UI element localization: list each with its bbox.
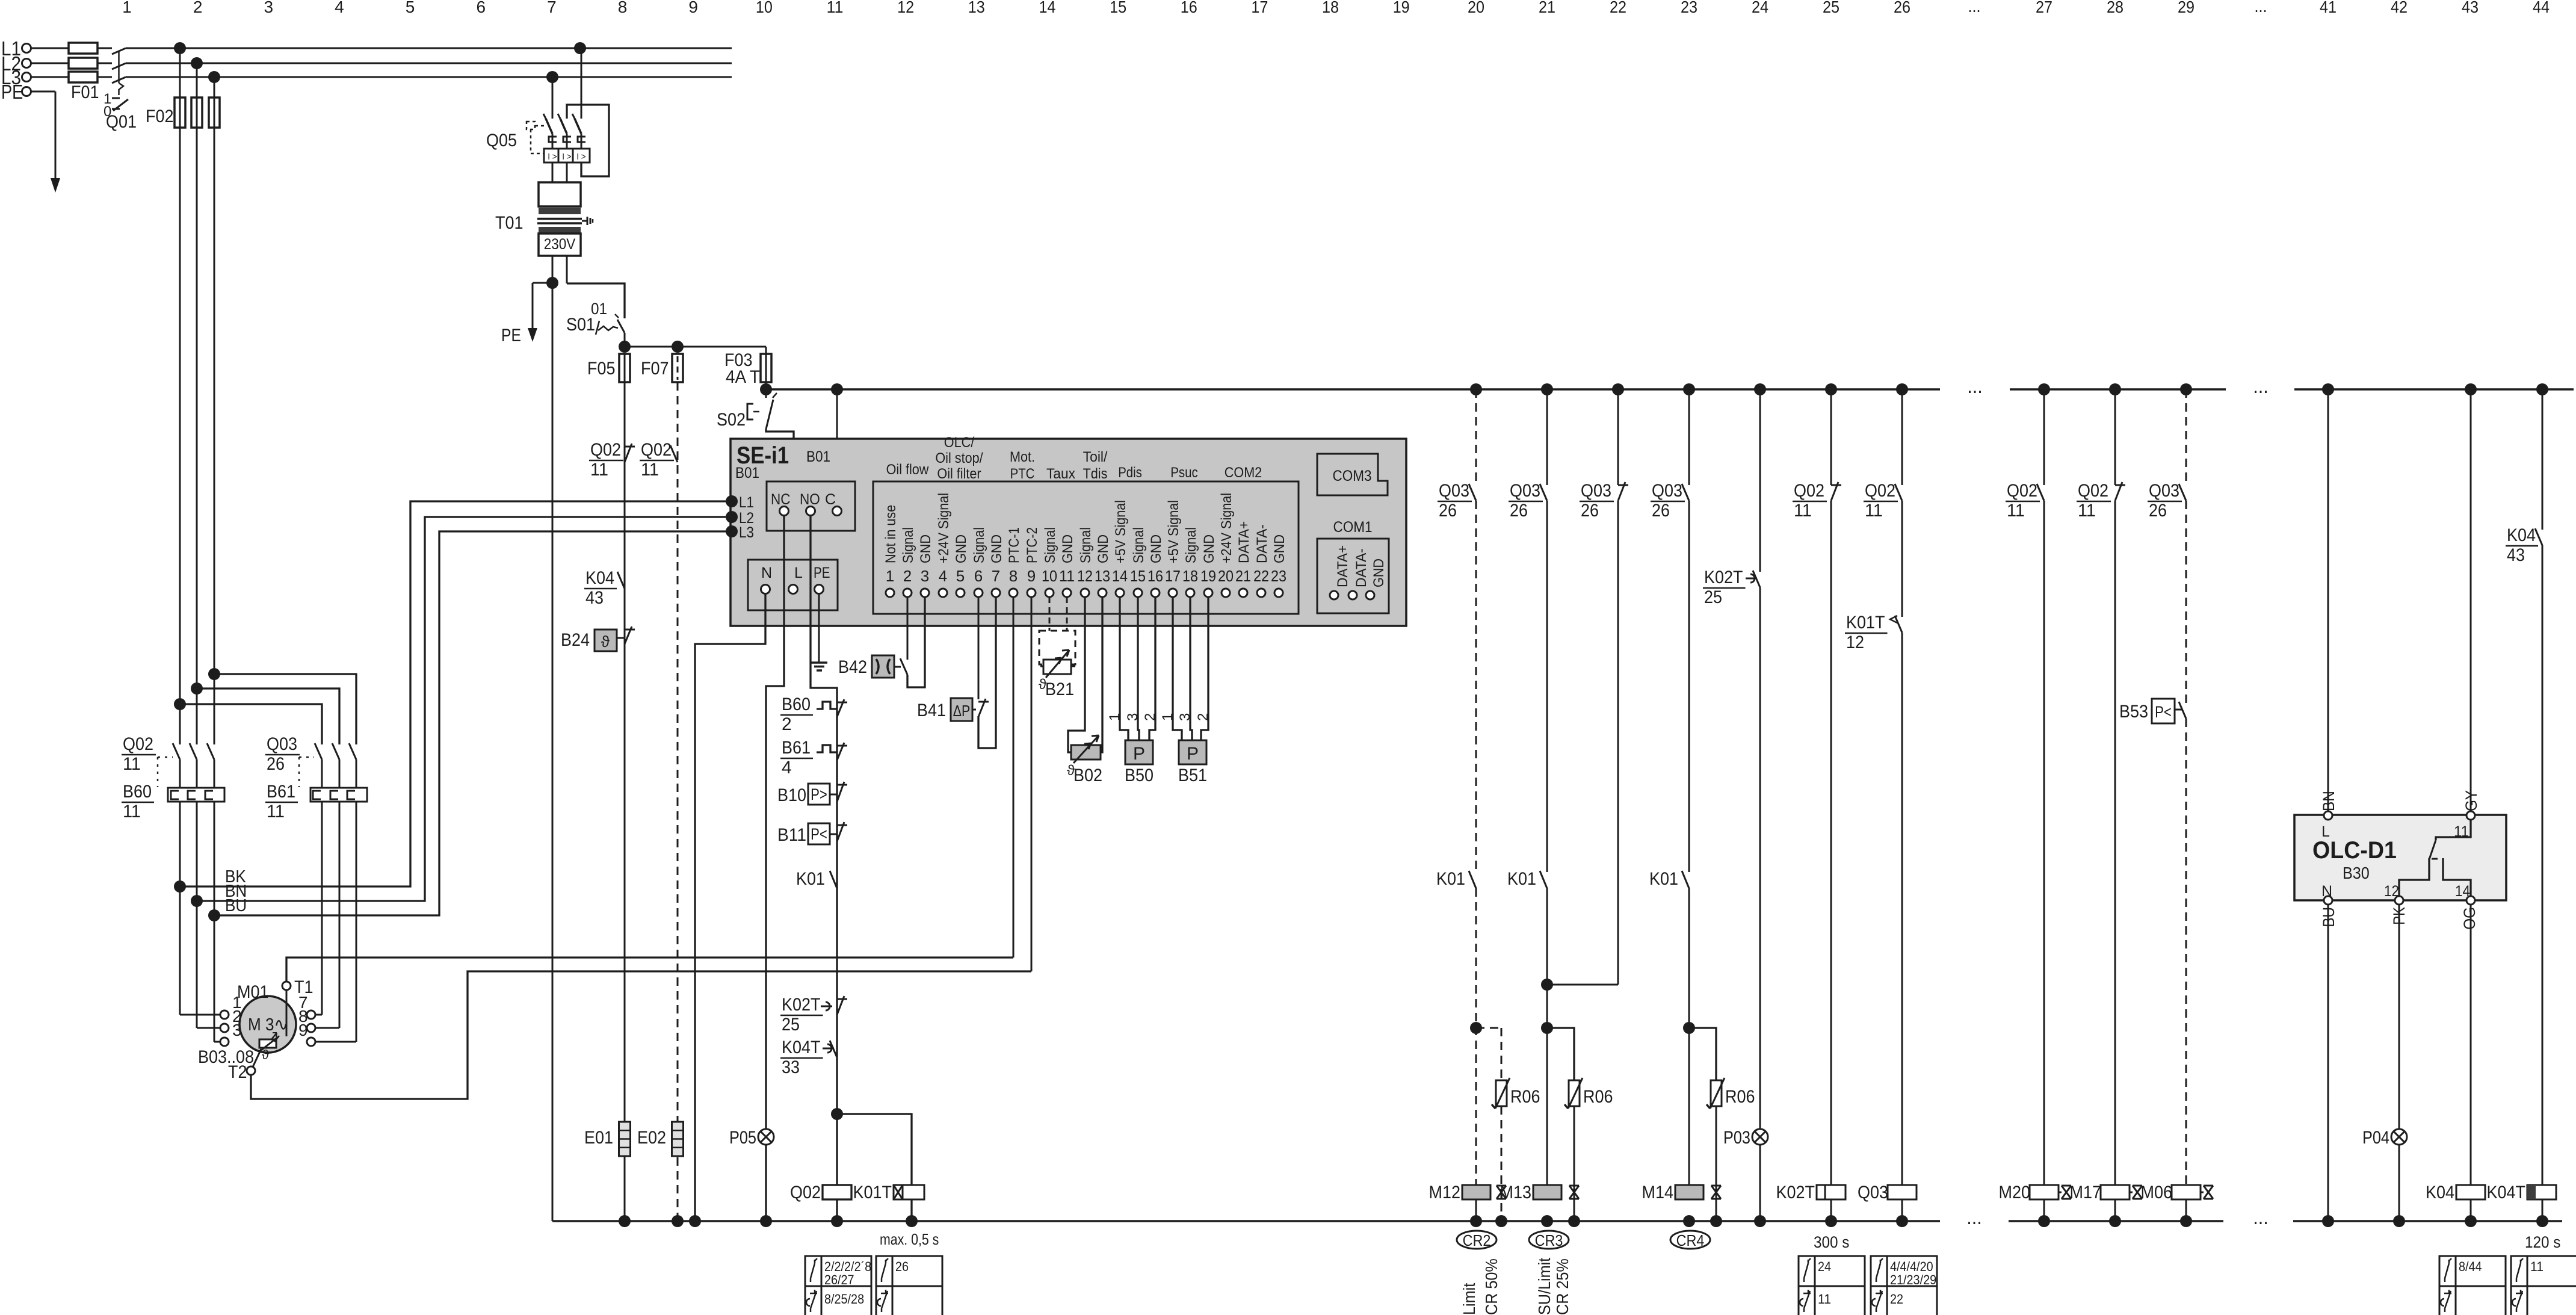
svg-text:B60: B60 [123, 782, 152, 802]
svg-text:DATA+: DATA+ [1236, 521, 1252, 563]
svg-text:PE: PE [814, 565, 830, 581]
svg-text:5: 5 [956, 567, 965, 585]
svg-text:11: 11 [2007, 501, 2025, 521]
svg-text:14: 14 [1039, 0, 1055, 16]
svg-text:10: 10 [756, 0, 773, 16]
svg-text:19: 19 [1200, 567, 1216, 585]
svg-text:T01: T01 [495, 213, 524, 233]
svg-text:26: 26 [1894, 0, 1910, 16]
svg-text:1: 1 [122, 0, 132, 16]
svg-text:16: 16 [1147, 567, 1163, 585]
svg-text:M06: M06 [2141, 1183, 2173, 1202]
svg-text:L1: L1 [739, 494, 754, 511]
svg-text:GND: GND [1060, 534, 1076, 563]
svg-text:18: 18 [1182, 567, 1198, 585]
svg-text:26: 26 [267, 754, 285, 774]
svg-text:P05: P05 [729, 1128, 756, 1148]
svg-text:Q01: Q01 [106, 112, 137, 132]
svg-text:43: 43 [2462, 0, 2479, 16]
svg-text:20: 20 [1468, 0, 1484, 16]
svg-text:24: 24 [1752, 0, 1768, 16]
svg-text:K02T: K02T [782, 995, 821, 1015]
svg-text:PTC-2: PTC-2 [1024, 527, 1040, 563]
svg-text:20: 20 [1218, 567, 1234, 585]
svg-text:P04: P04 [2362, 1128, 2389, 1148]
svg-text:25: 25 [782, 1015, 800, 1035]
svg-text:3: 3 [921, 567, 929, 585]
svg-text:Mot.: Mot. [1010, 449, 1035, 465]
svg-text:K02T: K02T [1776, 1183, 1815, 1202]
svg-text:Oil flow: Oil flow [886, 462, 929, 478]
svg-text:25: 25 [1823, 0, 1839, 16]
svg-text:+5V Signal: +5V Signal [1113, 500, 1129, 563]
svg-text:DATA+: DATA+ [1335, 545, 1351, 587]
svg-text:B42: B42 [838, 657, 867, 677]
svg-text:11: 11 [2530, 1259, 2544, 1274]
svg-text:9: 9 [1027, 567, 1036, 585]
svg-text:Q03: Q03 [267, 734, 297, 754]
svg-text:P03: P03 [1723, 1128, 1750, 1148]
svg-text:Q02: Q02 [1865, 481, 1895, 501]
svg-text:Q03: Q03 [1510, 481, 1540, 501]
svg-text:PE: PE [501, 326, 521, 345]
svg-text:PTC-1: PTC-1 [1006, 527, 1022, 563]
svg-text:15: 15 [1130, 567, 1146, 585]
svg-text:Q03: Q03 [1652, 481, 1682, 501]
svg-text:...: ... [1967, 375, 1983, 398]
svg-text:7: 7 [547, 0, 557, 16]
svg-text:Q03: Q03 [1439, 481, 1469, 501]
svg-text:+5V Signal: +5V Signal [1166, 500, 1182, 563]
svg-text:E02: E02 [637, 1128, 666, 1148]
svg-text:F01: F01 [71, 82, 99, 102]
svg-text:11: 11 [1865, 501, 1883, 521]
svg-text:42: 42 [2391, 0, 2408, 16]
svg-text:Oil filter: Oil filter [937, 466, 981, 482]
svg-text:9: 9 [298, 1021, 308, 1039]
svg-text:1: 1 [1107, 713, 1123, 721]
svg-text:P<: P< [2155, 703, 2172, 721]
svg-text:DATA-: DATA- [1353, 548, 1370, 587]
svg-text:T1: T1 [294, 977, 314, 997]
svg-text:4: 4 [335, 0, 344, 16]
svg-text:Q02: Q02 [2078, 481, 2108, 501]
svg-text:11: 11 [267, 802, 285, 821]
svg-text:11: 11 [123, 754, 141, 774]
svg-text:Q02: Q02 [590, 440, 621, 460]
svg-text:M 3: M 3 [248, 1015, 274, 1035]
svg-text:26: 26 [1439, 501, 1457, 521]
svg-text:11: 11 [641, 460, 659, 480]
svg-text:F02: F02 [146, 107, 174, 126]
svg-text:M14: M14 [1642, 1183, 1674, 1202]
svg-text:OLC-D1: OLC-D1 [2312, 837, 2397, 864]
svg-text:4A T: 4A T [726, 367, 760, 387]
svg-text:2: 2 [193, 0, 203, 16]
svg-text:12: 12 [897, 0, 914, 16]
svg-text:10: 10 [1042, 567, 1057, 585]
svg-text:Q03: Q03 [1858, 1183, 1888, 1202]
svg-text:230V: 230V [544, 236, 576, 253]
svg-text:11: 11 [1794, 501, 1812, 521]
svg-text:GND: GND [1095, 534, 1111, 563]
svg-text:I >: I > [576, 152, 586, 162]
svg-text:Q02: Q02 [2007, 481, 2037, 501]
svg-text:Signal: Signal [1042, 527, 1058, 563]
svg-text:GND: GND [918, 534, 934, 563]
svg-text:B01: B01 [735, 465, 759, 481]
svg-text:K04T: K04T [782, 1038, 821, 1057]
svg-text:B53: B53 [2119, 702, 2148, 722]
svg-text:L: L [2321, 823, 2330, 840]
svg-text:12: 12 [1077, 567, 1093, 585]
svg-text:Limit: Limit [1460, 1283, 1478, 1315]
svg-text:N: N [2321, 883, 2332, 900]
svg-text:3: 3 [232, 1021, 242, 1039]
svg-text:8/44: 8/44 [2459, 1259, 2482, 1274]
svg-text:Signal: Signal [971, 527, 987, 563]
svg-text:B60: B60 [782, 695, 811, 714]
svg-text:GND: GND [1271, 534, 1288, 563]
svg-text:max. 0,5 s: max. 0,5 s [880, 1230, 939, 1248]
svg-text:6: 6 [974, 567, 983, 585]
svg-text:PE: PE [1, 81, 23, 103]
svg-text:NC: NC [771, 491, 791, 508]
svg-text:GY: GY [2462, 790, 2480, 811]
svg-text:Signal: Signal [1131, 527, 1147, 563]
svg-text:23: 23 [1681, 0, 1697, 16]
svg-text:P: P [1133, 744, 1145, 764]
svg-text:12: 12 [1846, 633, 1864, 652]
svg-text:CR4: CR4 [1676, 1231, 1705, 1249]
svg-text:44: 44 [2533, 0, 2550, 16]
svg-text:K04: K04 [585, 568, 614, 588]
svg-text:Q02: Q02 [1794, 481, 1824, 501]
svg-text:21: 21 [1539, 0, 1555, 16]
svg-text:B10: B10 [777, 785, 806, 805]
svg-text:26: 26 [895, 1259, 909, 1274]
svg-text:6: 6 [476, 0, 486, 16]
svg-text:B21: B21 [1045, 679, 1074, 699]
svg-text:M20: M20 [1999, 1183, 2031, 1202]
svg-text:BN: BN [2320, 791, 2338, 811]
svg-text:OLC/: OLC/ [944, 435, 975, 451]
svg-text:17: 17 [1251, 0, 1268, 16]
svg-text:L: L [794, 565, 803, 581]
svg-text:R06: R06 [1725, 1087, 1755, 1107]
svg-text:M12: M12 [1429, 1183, 1461, 1202]
svg-text:Oil stop/: Oil stop/ [935, 450, 983, 466]
svg-text:K01: K01 [1507, 869, 1536, 889]
svg-text:K04: K04 [2426, 1183, 2454, 1202]
svg-text:NO: NO [800, 491, 820, 508]
svg-text:DATA-: DATA- [1254, 524, 1270, 563]
svg-text:Signal: Signal [1183, 527, 1199, 563]
svg-text:2: 2 [782, 714, 792, 734]
svg-text:Q03: Q03 [1581, 481, 1611, 501]
svg-text:26: 26 [2149, 501, 2167, 521]
svg-text:B50: B50 [1125, 766, 1154, 785]
svg-text:23: 23 [1271, 567, 1286, 585]
svg-text:C: C [825, 491, 836, 508]
svg-text:COM3: COM3 [1333, 468, 1372, 484]
svg-text:Toil/: Toil/ [1083, 449, 1108, 465]
svg-text:120 s: 120 s [2525, 1233, 2560, 1251]
svg-text:K01: K01 [796, 869, 825, 889]
svg-text:...: ... [1968, 0, 1981, 16]
svg-text:15: 15 [1110, 0, 1126, 16]
svg-text:3: 3 [264, 0, 274, 16]
svg-text:S01: S01 [566, 315, 595, 335]
svg-text:R06: R06 [1583, 1087, 1613, 1107]
svg-text:41: 41 [2320, 0, 2337, 16]
svg-text:5: 5 [406, 0, 415, 16]
svg-text:26: 26 [1581, 501, 1599, 521]
svg-text:B41: B41 [917, 701, 946, 720]
svg-text:PTC: PTC [1010, 466, 1035, 482]
svg-text:19: 19 [1393, 0, 1410, 16]
svg-text:28: 28 [2107, 0, 2124, 16]
svg-text:B11: B11 [777, 825, 806, 845]
svg-text:22: 22 [1890, 1292, 1903, 1307]
svg-text:9: 9 [688, 0, 698, 16]
svg-text:8: 8 [618, 0, 628, 16]
svg-text:GND: GND [1201, 534, 1217, 563]
svg-text:26: 26 [1510, 501, 1528, 521]
svg-text:8/25/28: 8/25/28 [824, 1292, 864, 1307]
svg-text:Signal: Signal [900, 527, 916, 563]
svg-text:+24V Signal: +24V Signal [1219, 493, 1235, 563]
svg-text:2: 2 [1142, 713, 1158, 721]
svg-text:300 s: 300 s [1814, 1233, 1849, 1251]
svg-text:P>: P> [811, 785, 827, 803]
svg-text:21: 21 [1235, 567, 1251, 585]
svg-text:1: 1 [1160, 713, 1176, 721]
svg-text:OG: OG [2460, 907, 2479, 930]
svg-text:COM1: COM1 [1333, 519, 1373, 536]
svg-text:Taux: Taux [1046, 466, 1075, 482]
svg-text:21/23/29: 21/23/29 [1890, 1272, 1936, 1287]
svg-text:18: 18 [1322, 0, 1339, 16]
svg-text:...: ... [2253, 1206, 2269, 1229]
svg-text:K01: K01 [1649, 869, 1678, 889]
svg-text:Tdis: Tdis [1083, 466, 1108, 482]
svg-text:B03..08: B03..08 [198, 1047, 254, 1067]
svg-text:26/27: 26/27 [824, 1272, 854, 1287]
svg-text:Q02: Q02 [123, 734, 153, 754]
svg-text:11: 11 [827, 0, 844, 16]
svg-text:2: 2 [1195, 713, 1211, 721]
svg-text:COM2: COM2 [1225, 465, 1262, 481]
svg-text:11: 11 [590, 460, 608, 480]
svg-text:CR 25%: CR 25% [1553, 1258, 1572, 1315]
svg-text:3: 3 [1125, 713, 1141, 721]
svg-text:CR 50%: CR 50% [1482, 1258, 1501, 1315]
svg-text:25: 25 [1704, 587, 1722, 607]
svg-text:BU: BU [225, 896, 247, 915]
svg-text:E01: E01 [584, 1128, 613, 1148]
svg-text:N: N [761, 565, 772, 581]
svg-text:29: 29 [2178, 0, 2195, 16]
svg-text:33: 33 [782, 1057, 800, 1077]
svg-text:K04T: K04T [2487, 1183, 2526, 1202]
svg-text:K04: K04 [2507, 525, 2536, 545]
svg-text:+24V Signal: +24V Signal [936, 493, 952, 563]
svg-text:Q05: Q05 [486, 131, 517, 150]
svg-text:14: 14 [2455, 883, 2470, 900]
svg-text:4: 4 [939, 567, 947, 585]
svg-text:P: P [1187, 744, 1199, 764]
svg-text:27: 27 [2036, 0, 2052, 16]
svg-text:22: 22 [1253, 567, 1269, 585]
svg-text:K02T: K02T [1704, 568, 1743, 587]
svg-text:2: 2 [903, 567, 912, 585]
svg-text:43: 43 [2507, 545, 2525, 565]
svg-text:...: ... [2255, 0, 2267, 16]
svg-text:GND: GND [953, 534, 969, 563]
svg-text:13: 13 [968, 0, 985, 16]
svg-text:B01: B01 [806, 448, 830, 465]
svg-text:I >: I > [548, 152, 557, 162]
svg-text:B51: B51 [1178, 766, 1207, 785]
svg-text:I >: I > [562, 152, 572, 162]
svg-text:P<: P< [811, 825, 827, 843]
svg-text:22: 22 [1610, 0, 1626, 16]
svg-text:Pdis: Pdis [1118, 465, 1142, 481]
svg-text:K01: K01 [1436, 869, 1465, 889]
svg-text:M13: M13 [1500, 1183, 1532, 1202]
svg-text:7: 7 [992, 567, 1000, 585]
svg-text:ΔP: ΔP [953, 702, 971, 720]
svg-text:Q02: Q02 [641, 440, 672, 460]
svg-text:Q03: Q03 [2149, 481, 2179, 501]
svg-text:GND: GND [1371, 558, 1387, 587]
svg-text:ϑ: ϑ [262, 1047, 269, 1062]
svg-text:11: 11 [2078, 501, 2096, 521]
svg-text:K01T: K01T [1846, 613, 1885, 633]
svg-text:B02: B02 [1073, 766, 1102, 785]
svg-text:R06: R06 [1510, 1087, 1540, 1107]
svg-text:...: ... [2253, 375, 2269, 398]
svg-text:43: 43 [585, 588, 604, 608]
svg-text:24: 24 [1818, 1259, 1831, 1274]
svg-text:F05: F05 [587, 359, 616, 379]
svg-text:Q02: Q02 [790, 1183, 821, 1202]
svg-text:CR2: CR2 [1463, 1231, 1491, 1249]
svg-text:L3: L3 [739, 524, 754, 541]
svg-text:CR3: CR3 [1535, 1231, 1563, 1249]
svg-text:3: 3 [1177, 713, 1193, 721]
svg-text:12: 12 [2384, 883, 2399, 900]
svg-text:M01: M01 [237, 982, 269, 1002]
svg-text:B61: B61 [782, 738, 811, 758]
svg-text:4: 4 [782, 758, 792, 778]
svg-text:B61: B61 [267, 782, 295, 802]
svg-text:Psuc: Psuc [1170, 465, 1198, 481]
svg-text:11: 11 [1059, 567, 1075, 585]
svg-text:B30: B30 [2343, 864, 2370, 882]
svg-text:K01T: K01T [853, 1183, 892, 1202]
svg-text:SU/Limit: SU/Limit [1535, 1258, 1554, 1315]
svg-text:8: 8 [1009, 567, 1018, 585]
svg-text:GND: GND [989, 534, 1005, 563]
svg-text:11: 11 [1818, 1292, 1831, 1307]
svg-text:1: 1 [886, 567, 894, 585]
svg-text:11: 11 [123, 802, 141, 821]
svg-text:M17: M17 [2070, 1183, 2102, 1202]
svg-text:13: 13 [1095, 567, 1110, 585]
svg-text:Signal: Signal [1078, 527, 1094, 563]
svg-text:17: 17 [1165, 567, 1181, 585]
svg-text:GND: GND [1148, 534, 1164, 563]
svg-text:14: 14 [1112, 567, 1128, 585]
svg-text:16: 16 [1181, 0, 1197, 16]
svg-text:Not in use: Not in use [883, 505, 899, 563]
svg-text:F07: F07 [641, 359, 669, 379]
svg-text:ϑ: ϑ [601, 633, 610, 651]
svg-text:B24: B24 [561, 630, 590, 650]
svg-text:...: ... [1966, 1206, 1982, 1229]
svg-text:26: 26 [1652, 501, 1670, 521]
svg-text:S02: S02 [717, 410, 746, 430]
